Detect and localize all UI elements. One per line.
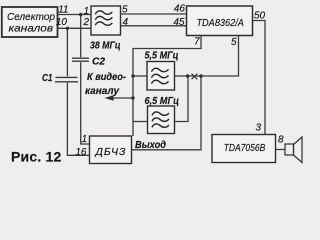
svg-text:38 МГц: 38 МГц bbox=[90, 40, 121, 51]
svg-text:Селектор: Селектор bbox=[7, 11, 55, 23]
svg-text:каналу: каналу bbox=[85, 86, 119, 97]
svg-text:2: 2 bbox=[82, 17, 89, 28]
svg-text:ДБЧЗ: ДБЧЗ bbox=[95, 146, 127, 158]
svg-text:каналов: каналов bbox=[9, 23, 54, 35]
svg-text:5: 5 bbox=[122, 5, 128, 16]
svg-text:TDA8362/A: TDA8362/A bbox=[196, 17, 244, 29]
svg-text:16: 16 bbox=[75, 147, 87, 158]
svg-text:Выход: Выход bbox=[135, 140, 166, 151]
svg-text:45: 45 bbox=[173, 17, 185, 28]
svg-text:3: 3 bbox=[255, 123, 261, 134]
svg-text:46: 46 bbox=[174, 4, 186, 15]
svg-text:50: 50 bbox=[254, 10, 266, 21]
svg-text:11: 11 bbox=[58, 5, 68, 16]
svg-text:4: 4 bbox=[123, 17, 129, 28]
svg-text:С2: С2 bbox=[92, 57, 105, 68]
svg-text:К видео-: К видео- bbox=[87, 72, 127, 83]
svg-text:Рис. 12: Рис. 12 bbox=[11, 149, 61, 165]
svg-text:5,5 МГц: 5,5 МГц bbox=[145, 51, 179, 62]
svg-text:С1: С1 bbox=[42, 73, 53, 84]
svg-text:6,5 МГц: 6,5 МГц bbox=[145, 96, 180, 107]
svg-text:1: 1 bbox=[81, 134, 87, 145]
svg-text:7: 7 bbox=[194, 37, 200, 48]
svg-text:5: 5 bbox=[231, 37, 237, 48]
svg-text:10: 10 bbox=[56, 17, 68, 28]
svg-text:TDA7056B: TDA7056B bbox=[224, 142, 266, 154]
svg-text:8: 8 bbox=[278, 135, 284, 146]
svg-text:1: 1 bbox=[83, 6, 89, 17]
